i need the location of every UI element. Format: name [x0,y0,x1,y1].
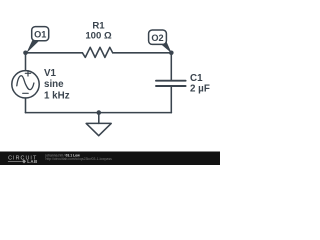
voltage source V1 circle [12,71,39,98]
svg-text:O2: O2 [151,33,163,43]
footer logo diamond [22,159,26,163]
svg-text:LAB: LAB [27,159,38,164]
wire bottom rail [26,112,172,114]
wire top left: O1 junction to resistor [26,52,83,54]
svg-text:sine: sine [44,79,64,90]
ground stub [98,113,100,124]
svg-text:http://circuitlab.com/c/cqs23k: http://circuitlab.com/c/cqs23kv/03-1-low… [46,157,113,161]
footer logo wire graphic [8,160,22,162]
V1 plus sign [25,72,30,74]
footer bar [0,152,220,166]
node B junction dot O2 [169,51,174,56]
svg-text:1 kHz: 1 kHz [44,91,70,102]
svg-text:V1: V1 [44,68,57,79]
node O1 flag box [32,27,49,41]
wire top right: resistor to O2 junction [113,52,172,54]
svg-text:2 µF: 2 µF [190,83,210,94]
resistor R1 [82,47,112,57]
svg-text:100 Ω: 100 Ω [85,30,112,41]
node O1 flag tail [26,39,39,53]
capacitor C1 bottom plate [156,85,186,87]
V1 minus sign [23,92,29,94]
wire V1 bottom lead [25,98,27,113]
V1 sine symbol [17,76,34,90]
ground symbol [86,123,111,135]
capacitor C1 top plate [156,80,186,82]
node ground junction dot [97,110,102,115]
node O2 flag box [149,30,167,44]
node A junction dot O1 [23,51,28,56]
wire C1 top lead [170,53,172,80]
node O2 flag tail [160,41,172,54]
svg-text:O1: O1 [34,29,46,39]
wire C1 bottom lead [170,87,172,113]
wire V1 top lead [25,53,27,71]
